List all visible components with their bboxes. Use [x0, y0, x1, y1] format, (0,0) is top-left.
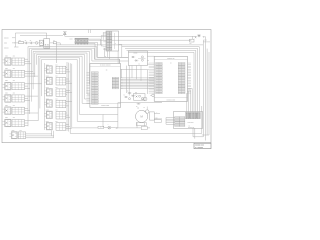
- svg-text:xxx: xxx: [13, 105, 15, 107]
- transistor Q6: [145, 110, 149, 114]
- svg-text:xxxx: xxxx: [12, 130, 15, 132]
- wire K3 out1: [25, 83, 42, 85]
- wire K4 out3: [25, 100, 30, 102]
- microcontroller IC1: [90, 64, 121, 108]
- power module U2: [44, 39, 50, 49]
- data bus wire D0: [121, 77, 155, 79]
- svg-text:xxxxxxx xxxx: xxxxxxx xxxx: [166, 100, 175, 102]
- wire K4 out2: [25, 97, 29, 99]
- wire K11 out3: [66, 105, 69, 107]
- wire K12 out3: [66, 116, 70, 118]
- svg-text:xxxx: xxxx: [70, 39, 73, 41]
- bus wire right d: [202, 52, 209, 135]
- wire U3 to IC2 c: [147, 63, 148, 65]
- diode D1: [30, 42, 32, 44]
- wire CN1 down b: [194, 128, 196, 138]
- wire CN1 in3: [166, 120, 175, 122]
- data bus wire D3: [121, 81, 155, 83]
- wire input chain: [14, 42, 19, 44]
- wire lamp b: [111, 127, 116, 129]
- wire K2 out3: [25, 75, 39, 77]
- varistor RV1: [25, 42, 27, 44]
- svg-text:xxxx: xxxx: [5, 117, 8, 119]
- ground GND1: [203, 35, 205, 37]
- bus net wire N1: [27, 47, 29, 127]
- fuse F1: [198, 34, 201, 37]
- bus net wire N4: [32, 51, 34, 89]
- wire K6 out3: [25, 124, 29, 126]
- bus net wire N5: [34, 53, 36, 77]
- wire IC2-CN1 2: [188, 90, 191, 112]
- wire VCC rail left: [15, 33, 46, 39]
- wire K5 out1: [25, 107, 29, 109]
- bus wire right a: [193, 40, 203, 137]
- bus wire cn loop: [201, 106, 203, 133]
- vertical wire a: [120, 69, 122, 78]
- wire K1 out2: [25, 61, 30, 63]
- capacitor C1: [53, 42, 56, 44]
- bus net wire N6: [36, 55, 38, 65]
- wire K3 out2: [25, 85, 29, 87]
- wire U3 to IC2 b: [147, 59, 148, 61]
- diode D5: [138, 103, 140, 105]
- wire IC2-CN1 3: [188, 92, 189, 113]
- vertical wire U3b: [136, 66, 138, 80]
- data bus wire D7: [121, 87, 155, 89]
- frame tick b: [89, 30, 91, 34]
- wire motor stub b: [144, 123, 146, 127]
- transistor Q2: [129, 92, 131, 94]
- wire K13 out1: [66, 123, 69, 125]
- data bus wire D4: [121, 83, 155, 85]
- data bus wire D5: [121, 84, 155, 86]
- vertical join input: [14, 33, 16, 47]
- wire RL1 right: [154, 118, 162, 120]
- svg-text:xxx: xxx: [190, 43, 192, 45]
- vertical wire U3c: [140, 66, 142, 81]
- wire J1 down: [117, 51, 119, 64]
- wire U2 out: [50, 42, 54, 44]
- wire K5 out3: [25, 112, 39, 114]
- wire motor stub a: [136, 122, 138, 128]
- wire K5 out2: [25, 110, 30, 112]
- wire K11 out2: [66, 103, 67, 105]
- svg-text:xxxx: xxxx: [4, 43, 7, 45]
- driver box U4: [134, 94, 146, 101]
- bus wire col2 left: [43, 63, 45, 130]
- svg-text:xxx: xxx: [13, 80, 15, 82]
- bridge rectifier B1: [40, 40, 44, 45]
- resistor R1: [19, 42, 24, 44]
- wire lamp c: [118, 127, 142, 129]
- vertical wire d: [147, 70, 149, 94]
- wire K9 out3: [66, 82, 72, 84]
- resistor network RN2: [75, 42, 88, 44]
- bus net wire N7: [37, 56, 39, 121]
- svg-text:xxx: xxx: [13, 68, 15, 70]
- wire K13 out3: [66, 128, 72, 130]
- svg-text:xx: xx: [106, 70, 108, 72]
- svg-text:xxxxxx: xxxxxx: [4, 48, 9, 50]
- svg-text:xxx: xxx: [135, 92, 137, 94]
- wire D1-Q1: [32, 42, 35, 44]
- wire K6 out1: [25, 120, 39, 122]
- wire bus E2: [125, 48, 198, 112]
- regulator VR1: [190, 39, 195, 42]
- svg-text:xxxx: xxxx: [5, 93, 8, 95]
- wire IC2-CN1 4: [186, 93, 189, 112]
- wire rail to VR1: [88, 39, 191, 41]
- transistor Q4: [143, 97, 147, 101]
- wire Q1-B1: [38, 42, 40, 44]
- svg-text:xxxxx xxxxx: xxxxx xxxxx: [101, 105, 109, 107]
- wire K9 out1: [66, 78, 69, 80]
- wire K12 out2: [66, 114, 69, 116]
- wire RN2 out2: [88, 43, 120, 63]
- transistor Q3: [132, 95, 134, 97]
- wire J1 bottom b: [109, 51, 111, 59]
- motor M1: [136, 110, 148, 122]
- wire analog out: [56, 44, 203, 46]
- diode D6: [116, 127, 118, 129]
- wire VR1 up: [192, 36, 194, 39]
- vertical wire b: [125, 66, 127, 94]
- wire C8 right: [147, 127, 150, 129]
- wire motor rail: [118, 102, 162, 104]
- wire K7 out1: [26, 133, 52, 135]
- crystal circuit U3: [128, 51, 147, 66]
- wire K8 out3: [66, 71, 70, 73]
- wire K11 out1: [66, 101, 72, 103]
- wire bus E1: [122, 47, 200, 113]
- wire K4 out1: [25, 95, 39, 97]
- bus wire col2 drop b: [53, 131, 55, 138]
- bus wire col2 c: [70, 63, 202, 133]
- svg-text:xxx: xxx: [13, 93, 15, 95]
- data bus wire D6: [121, 86, 155, 88]
- wire lamp rail: [103, 114, 118, 127]
- wire J1 right: [119, 44, 122, 57]
- wire C1 right: [56, 42, 60, 44]
- svg-text:xxxx: xxxx: [5, 68, 8, 70]
- wire lamp a: [104, 126, 108, 128]
- vertical wire c: [128, 66, 130, 96]
- transistor Q1: [35, 42, 38, 45]
- wire AC rail: [20, 35, 63, 37]
- title block: [194, 143, 211, 148]
- wire K2 out2: [25, 73, 35, 75]
- bus net wire N3: [30, 50, 32, 102]
- wire R1-RV1: [24, 42, 26, 44]
- svg-text:xxx: xxx: [156, 117, 158, 119]
- wire RN2 out: [88, 42, 128, 57]
- bus net wire N2: [29, 48, 31, 114]
- wire K2 out1: [25, 71, 34, 73]
- svg-text:xx xx: xx xx: [40, 45, 43, 47]
- connector CN1: [173, 112, 202, 129]
- wire VCC rail right: [65, 35, 197, 37]
- frame tick a: [88, 30, 90, 34]
- drawing frame border: [2, 30, 211, 143]
- wire K10 out3: [66, 94, 67, 96]
- wire K6 out2: [25, 122, 29, 124]
- wire bus E3: [127, 50, 196, 112]
- svg-text:xxxx: xxxx: [5, 56, 8, 58]
- wire RV1-D1: [27, 42, 30, 44]
- microcontroller IC2: [154, 56, 187, 101]
- wire CN1 in4: [166, 122, 175, 124]
- wire K8 out2: [66, 69, 69, 71]
- bus wire col2 a: [66, 62, 68, 131]
- relay RL1: [150, 112, 155, 120]
- terminal X2: [154, 120, 161, 123]
- wire CN1 in1: [166, 117, 175, 119]
- wire U3 to IC2 a: [147, 55, 154, 57]
- svg-text:xxx: xxx: [13, 117, 15, 119]
- resistor network RN1: [75, 38, 88, 40]
- bus wire col2 drop a: [51, 130, 53, 136]
- wire K7 out3: [26, 137, 54, 139]
- wire CN1 in2: [166, 118, 175, 120]
- wire K8 out1: [66, 67, 67, 69]
- vertical wire motor left: [117, 103, 119, 128]
- svg-text:xxxxxx xxx: xxxxxx xxx: [188, 127, 195, 129]
- bus wire right b: [204, 36, 206, 140]
- wire B1-U2: [42, 42, 45, 44]
- bus net wire N8: [39, 58, 41, 109]
- wire K1 out3: [25, 63, 32, 65]
- data bus wire D1: [121, 78, 155, 80]
- wire CN1 down a: [192, 128, 194, 137]
- transistor Q5: [152, 94, 155, 97]
- wire J1 bottom a: [107, 51, 109, 57]
- bus net wire N9: [41, 59, 43, 96]
- wire RN1 out: [88, 39, 101, 45]
- wire IC2-CN1 1: [188, 89, 193, 113]
- svg-text:xxxx: xxxx: [5, 105, 8, 107]
- power symbol +5V: [63, 32, 66, 35]
- wire K12 out1: [66, 112, 67, 114]
- driver Q7: [125, 96, 127, 98]
- capacitor C8: [141, 126, 147, 129]
- vertical wire U3a: [131, 66, 133, 78]
- wire K1 out1: [25, 58, 29, 60]
- wire CN1 left riser: [165, 118, 167, 125]
- svg-text:xxx: xxx: [19, 40, 21, 42]
- svg-text:xxx: xxx: [137, 107, 139, 109]
- wire K10 out2: [66, 92, 72, 94]
- wire IC1 top to IC2: [121, 68, 149, 70]
- terminal box X4: [98, 126, 104, 128]
- wire K10 out1: [66, 89, 70, 91]
- bus wire col2 d: [72, 64, 98, 128]
- bus wire right c: [206, 49, 208, 136]
- wire K13 out2: [66, 125, 70, 127]
- svg-text:xxxxxx: xxxxxx: [4, 37, 9, 39]
- wire gnd link: [203, 41, 210, 43]
- data bus wire D2: [121, 80, 155, 82]
- svg-text:x x xx,xxx: x x xx,xxx: [195, 147, 203, 149]
- wire CN1 in5: [166, 123, 175, 125]
- motor terminal box: [136, 123, 146, 126]
- wire K3 out3: [25, 87, 30, 89]
- lamp L1: [108, 126, 111, 129]
- wire K7 out2: [26, 135, 54, 137]
- wire K9 out2: [66, 80, 70, 82]
- bus wire col2 b: [68, 63, 70, 132]
- svg-text:xxxx: xxxx: [5, 80, 8, 82]
- wire C1 down: [56, 44, 58, 63]
- wire bus E4: [128, 52, 194, 112]
- svg-text:xxx: xxx: [13, 56, 15, 58]
- svg-text:xxxx xxxx: xxxx xxxx: [188, 122, 194, 124]
- connector J1: [106, 31, 119, 51]
- wire J1 stub down a: [103, 48, 105, 57]
